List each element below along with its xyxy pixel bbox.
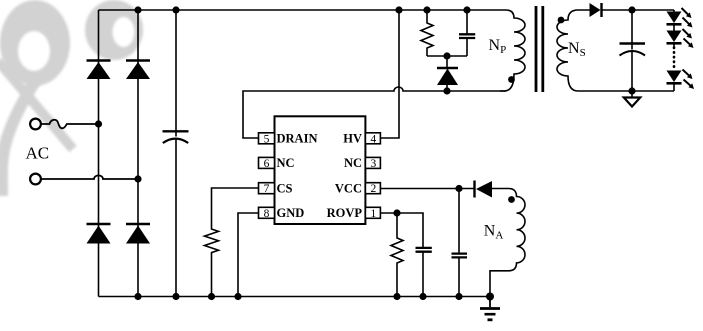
LED1 <box>667 12 682 25</box>
wire GND: pin8 left then down <box>238 213 259 297</box>
node HV top rail <box>395 6 402 13</box>
LED string wire <box>673 10 675 91</box>
svg-text:DRAIN: DRAIN <box>277 132 318 146</box>
node output cap bottom <box>628 87 635 94</box>
node C1 bottom <box>172 293 179 300</box>
transformer secondary NS winding <box>557 10 578 91</box>
pin 3 box <box>365 157 380 168</box>
wire secondary top <box>578 9 674 11</box>
svg-text:NP: NP <box>489 37 507 56</box>
diode D2 <box>126 61 150 80</box>
wire drain: pin5 up and right with hop over HV line <box>243 87 506 138</box>
transformer auxiliary NA winding <box>490 189 525 297</box>
node C4 bottom <box>455 293 462 300</box>
wire ROVP: pin1 right then down <box>380 213 423 248</box>
wire snubber bottom connector <box>427 55 467 57</box>
AC terminal N <box>30 174 41 185</box>
node top rail leg2 <box>134 6 141 13</box>
transformer primary NP winding <box>500 10 525 91</box>
resistor R2 (snubber) <box>421 10 433 56</box>
svg-text:ROVP: ROVP <box>327 206 363 220</box>
svg-text:6: 6 <box>264 158 270 170</box>
node junction AC-L / leg1 <box>95 120 102 127</box>
svg-text:HV: HV <box>343 132 362 146</box>
diode D1 <box>87 61 111 80</box>
IC U1 body <box>275 116 366 224</box>
diode D5 (clamp) <box>437 56 458 91</box>
pin 1 box <box>365 207 380 218</box>
node C1 top <box>172 6 179 13</box>
wire AC-N with hop over leg1 <box>41 175 138 179</box>
node C2 top <box>463 6 470 13</box>
pin 5 box <box>259 133 275 144</box>
diode D4 <box>126 224 150 244</box>
svg-text:NS: NS <box>568 40 586 59</box>
watermark <box>0 0 143 86</box>
svg-text:2: 2 <box>371 183 377 195</box>
capacitor C5 (output) <box>620 10 646 91</box>
svg-text:NC: NC <box>344 156 362 170</box>
node GND bottom <box>234 293 241 300</box>
node R3 bottom <box>393 293 400 300</box>
ground signal (secondary) <box>624 91 640 107</box>
node bottom rail leg2 <box>134 293 141 300</box>
wire bottom rail <box>99 296 491 298</box>
wire bridge leg 1 <box>98 10 100 297</box>
svg-text:NC: NC <box>277 156 295 170</box>
LED1 arrows <box>682 8 693 28</box>
wire top rail <box>99 9 507 11</box>
capacitor C3 (ROVP) <box>416 248 432 297</box>
capacitor C4 (VCC) <box>452 189 468 297</box>
transformer core <box>536 6 543 92</box>
pin 7 box <box>259 183 275 194</box>
node NA bottom / rail end <box>486 293 494 301</box>
capacitor C1 <box>163 10 189 297</box>
resistor R3 (ROVP) <box>391 213 403 297</box>
node snubber/diode junction <box>443 52 450 59</box>
svg-text:NA: NA <box>484 223 504 242</box>
diode D3 <box>87 224 111 244</box>
svg-text:1: 1 <box>371 208 377 220</box>
diode D6 (output) <box>590 3 602 17</box>
resistor R1 (CS) <box>205 188 259 297</box>
wire D7 anode to NA <box>492 188 509 190</box>
svg-text:5: 5 <box>264 133 270 145</box>
capacitor C2 (snubber) <box>459 10 475 56</box>
node R2 top <box>423 6 430 13</box>
wire secondary bottom <box>578 90 674 92</box>
wire HV: pin4 right then up to top rail <box>380 10 399 138</box>
node C3 bottom <box>419 293 426 300</box>
wire VCC: pin2 to diode <box>380 188 474 190</box>
LED3 <box>667 71 682 84</box>
svg-text:CS: CS <box>277 182 293 196</box>
pin 2 box <box>365 183 380 194</box>
svg-text:7: 7 <box>264 183 270 195</box>
pin 8 box <box>259 207 275 218</box>
node junction AC-N / leg2 <box>134 175 141 182</box>
fuse F1 <box>41 120 99 129</box>
node R1 bottom <box>208 293 215 300</box>
node VCC cap branch <box>455 185 462 192</box>
diode D7 (VCC rectifier) <box>475 181 493 198</box>
NA polarity dot <box>508 196 515 203</box>
pin 6 box <box>259 157 275 168</box>
node ROVP branch <box>393 209 400 216</box>
NS polarity dot <box>558 17 565 24</box>
ground earth (primary) <box>480 297 500 320</box>
LED dashed segment <box>673 48 676 71</box>
node D5 anode / drain line <box>443 87 450 94</box>
svg-text:4: 4 <box>371 133 377 145</box>
pin 4 box <box>365 133 380 144</box>
wire bridge leg 2 <box>137 10 139 297</box>
NP polarity dot <box>508 76 515 83</box>
svg-text:3: 3 <box>371 158 377 170</box>
AC terminal L <box>30 119 41 130</box>
svg-text:AC: AC <box>26 144 50 163</box>
LED2 arrows <box>683 29 694 48</box>
svg-text:VCC: VCC <box>335 182 362 196</box>
svg-text:GND: GND <box>277 206 305 220</box>
LED3 arrows <box>683 70 695 90</box>
svg-text:8: 8 <box>264 208 270 220</box>
LED2 <box>667 31 682 44</box>
node output cap top <box>628 6 635 13</box>
